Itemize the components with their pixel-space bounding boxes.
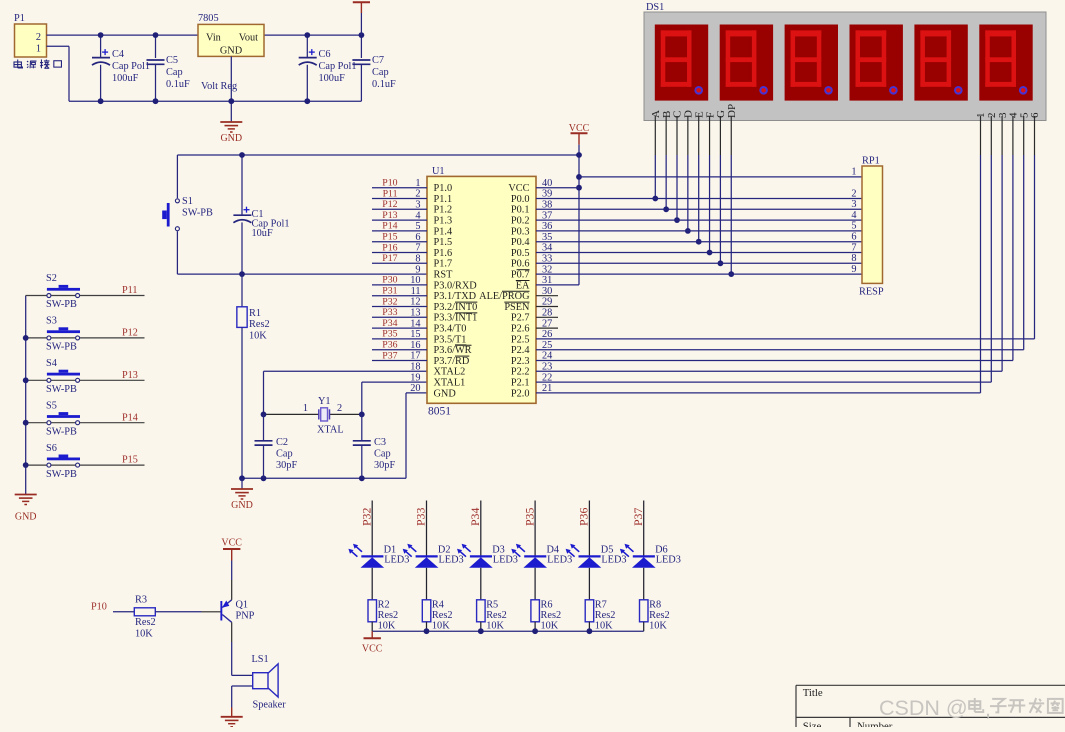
- svg-text:P3.5/T1: P3.5/T1: [434, 334, 467, 345]
- svg-text:P1.6: P1.6: [434, 248, 453, 259]
- overbar marks: [455, 270, 530, 356]
- wire P33 vertical: [426, 501, 428, 557]
- top rail Vout to VCC: [264, 34, 361, 36]
- svg-text:5: 5: [851, 221, 856, 232]
- digit 1 of DS1: [655, 25, 708, 101]
- svg-text:LED3: LED3: [384, 555, 409, 566]
- svg-text:1: 1: [303, 403, 308, 414]
- wire VCC rail to reset circuit: [177, 154, 579, 156]
- svg-text:XTAL1: XTAL1: [434, 378, 466, 389]
- svg-text:Speaker: Speaker: [253, 700, 287, 711]
- svg-text:Cap: Cap: [374, 449, 391, 460]
- svg-text:LED3: LED3: [439, 555, 464, 566]
- power VCC top: [353, 1, 370, 3]
- svg-text:C2: C2: [276, 437, 288, 448]
- svg-text:1: 1: [851, 167, 856, 178]
- switch S2: [26, 295, 145, 297]
- svg-text:RP1: RP1: [862, 156, 880, 167]
- svg-text:P0.6: P0.6: [511, 259, 530, 270]
- svg-text:P2.3: P2.3: [511, 356, 530, 367]
- svg-text:P0.2: P0.2: [511, 216, 530, 227]
- svg-text:LS1: LS1: [252, 654, 269, 665]
- svg-text:P1.3: P1.3: [434, 216, 453, 227]
- svg-text:P3.4/T0: P3.4/T0: [434, 324, 467, 335]
- resistor R7: [588, 568, 590, 600]
- display DS1 body: [644, 12, 1046, 121]
- svg-text:Cap Pol1: Cap Pol1: [112, 61, 150, 72]
- svg-text:P32: P32: [382, 296, 397, 307]
- svg-text:R7: R7: [595, 600, 607, 611]
- svg-text:P35: P35: [522, 508, 536, 526]
- wire XTAL1 pin19: [362, 381, 427, 383]
- power VCC above Q1: [231, 549, 233, 561]
- svg-text:P3.0/RXD: P3.0/RXD: [434, 280, 478, 291]
- svg-text:DP: DP: [726, 104, 738, 118]
- svg-text:C7: C7: [372, 55, 384, 66]
- svg-text:P12: P12: [382, 199, 397, 210]
- switch S3: [26, 337, 145, 339]
- wire collector to speaker: [232, 674, 253, 676]
- svg-text:P16: P16: [382, 242, 397, 253]
- svg-text:8051: 8051: [428, 406, 451, 418]
- svg-text:Title: Title: [803, 687, 823, 699]
- svg-text:10K: 10K: [595, 621, 613, 632]
- svg-text:R1: R1: [249, 308, 261, 319]
- wire R3 to Q1 base: [155, 611, 201, 613]
- svg-text:P2.2: P2.2: [511, 367, 530, 378]
- digit 6 of DS1: [979, 25, 1032, 101]
- ground GND below 7805: [220, 121, 242, 123]
- svg-text:Cap: Cap: [372, 67, 389, 78]
- svg-text:P2.1: P2.1: [511, 378, 530, 389]
- unconnected stubs pins 27-30: [536, 295, 558, 297]
- svg-text:1: 1: [36, 44, 41, 55]
- capacitor C7: [360, 35, 362, 58]
- svg-text:20: 20: [410, 383, 420, 394]
- svg-text:4: 4: [851, 210, 856, 221]
- LED D6: [633, 555, 655, 557]
- svg-text:19: 19: [410, 372, 420, 383]
- op-amp U1 8051 body: [427, 176, 536, 403]
- svg-text:30pF: 30pF: [374, 460, 395, 471]
- svg-text:7805: 7805: [198, 13, 219, 24]
- ground GND below S6: [25, 465, 27, 494]
- svg-text:,: ,: [985, 697, 991, 721]
- svg-text:P10: P10: [382, 178, 397, 189]
- resistor R8: [643, 568, 645, 600]
- svg-text:10K: 10K: [249, 331, 267, 342]
- svg-text:30pF: 30pF: [276, 460, 297, 471]
- svg-text:GND: GND: [434, 388, 457, 399]
- svg-text:S3: S3: [46, 316, 57, 327]
- svg-text:P33: P33: [382, 307, 397, 318]
- wire Q1 emitter to VCC: [231, 580, 233, 600]
- title block: [796, 685, 1065, 727]
- switch S4: [26, 379, 145, 381]
- ground GND below speaker: [221, 716, 243, 718]
- svg-text:P11: P11: [383, 188, 398, 199]
- svg-text:P32: P32: [359, 508, 373, 526]
- svg-text:EA: EA: [516, 280, 530, 291]
- wire P34 vertical: [480, 501, 482, 557]
- svg-text:10K: 10K: [541, 621, 559, 632]
- svg-text:RST: RST: [434, 270, 454, 281]
- svg-text:P15: P15: [382, 232, 397, 243]
- svg-text:DS1: DS1: [646, 2, 664, 13]
- resistor R5: [480, 568, 482, 600]
- switch S1: [176, 155, 178, 198]
- svg-text:P0.3: P0.3: [511, 226, 530, 237]
- svg-text:C6: C6: [319, 49, 331, 60]
- svg-text:P30: P30: [382, 275, 397, 286]
- LED D1: [361, 555, 383, 557]
- svg-text:Res2: Res2: [541, 610, 562, 621]
- capacitor C6: [306, 35, 308, 58]
- LED D5: [579, 555, 601, 557]
- svg-text:P1.5: P1.5: [434, 237, 453, 248]
- svg-text:6: 6: [1029, 112, 1041, 118]
- svg-text:P11: P11: [122, 285, 137, 296]
- speaker LS1: [253, 673, 268, 689]
- svg-text:P3.6/WR: P3.6/WR: [434, 345, 472, 356]
- LED D2: [416, 555, 438, 557]
- svg-text:S4: S4: [46, 358, 57, 369]
- wire LED ground rail: [372, 630, 644, 632]
- svg-text:P36: P36: [382, 340, 397, 351]
- svg-text:P31: P31: [382, 286, 397, 297]
- svg-text:GND: GND: [15, 512, 37, 523]
- wire P35 vertical: [534, 501, 536, 557]
- wire P1 pin1 down to ground rail: [47, 45, 70, 47]
- svg-text:P2.5: P2.5: [511, 334, 530, 345]
- svg-text:SW-PB: SW-PB: [46, 469, 77, 480]
- wire Q1 collector down: [231, 622, 233, 642]
- svg-text:S2: S2: [46, 273, 57, 284]
- svg-text:Y1: Y1: [318, 396, 331, 407]
- svg-text:P3.2/INT0: P3.2/INT0: [434, 302, 478, 313]
- svg-text:SW-PB: SW-PB: [182, 208, 213, 219]
- svg-text:XTAL: XTAL: [317, 425, 344, 436]
- connector P1: [15, 24, 47, 57]
- wire EA pin31: [536, 284, 579, 286]
- svg-text:10K: 10K: [486, 621, 504, 632]
- wire GND pin20: [406, 392, 427, 394]
- svg-text:Number: Number: [857, 721, 893, 728]
- svg-text:P2.6: P2.6: [511, 324, 530, 335]
- svg-text:P13: P13: [122, 370, 138, 381]
- svg-text:R2: R2: [378, 600, 390, 611]
- wire VCC pin40: [536, 187, 579, 189]
- svg-text:7: 7: [851, 242, 856, 253]
- wire RST rail: [177, 273, 427, 275]
- svg-text:P0.1: P0.1: [511, 205, 530, 216]
- svg-text:SW-PB: SW-PB: [46, 342, 77, 353]
- svg-text:Res2: Res2: [649, 610, 670, 621]
- svg-text:Res2: Res2: [249, 319, 270, 330]
- svg-text:100uF: 100uF: [112, 73, 139, 84]
- resistor R1: [241, 274, 243, 307]
- svg-text:CSDN @: CSDN @: [879, 696, 968, 720]
- svg-text:Vout: Vout: [239, 33, 258, 44]
- svg-text:P1.4: P1.4: [434, 226, 453, 237]
- svg-text:P15: P15: [122, 455, 138, 466]
- svg-text:P33: P33: [414, 508, 428, 526]
- svg-text:C3: C3: [374, 437, 386, 448]
- svg-text:3: 3: [851, 199, 856, 210]
- svg-text:PNP: PNP: [236, 611, 255, 622]
- wire speaker return to ground: [232, 685, 253, 687]
- wire P1 pin2 to regulator: [47, 34, 199, 36]
- digit 4 of DS1: [850, 25, 903, 101]
- svg-text:VCC: VCC: [221, 538, 242, 549]
- svg-text:P35: P35: [382, 329, 397, 340]
- capacitor C5: [155, 35, 157, 58]
- svg-text:VCC: VCC: [362, 644, 383, 655]
- ground rail xtal section: [242, 477, 406, 479]
- svg-text:C4: C4: [112, 49, 124, 60]
- svg-text:GND: GND: [220, 46, 243, 57]
- resistor-pack RP1: [862, 166, 883, 283]
- display pin stubs: [654, 116, 656, 155]
- svg-text:LED3: LED3: [493, 555, 518, 566]
- label 电源接口: [14, 60, 22, 68]
- svg-text:XTAL2: XTAL2: [434, 367, 466, 378]
- LED D4: [524, 555, 546, 557]
- svg-text:RESP: RESP: [859, 287, 884, 298]
- svg-text:2: 2: [851, 188, 856, 199]
- svg-text:2: 2: [337, 403, 342, 414]
- switch S5: [26, 422, 145, 424]
- svg-text:2: 2: [36, 32, 41, 43]
- svg-text:LED3: LED3: [656, 555, 681, 566]
- svg-text:LED3: LED3: [601, 555, 626, 566]
- ground GND below R1: [241, 478, 243, 489]
- resistor R6: [534, 568, 536, 600]
- wire P10 to R3: [113, 611, 134, 613]
- svg-text:LED3: LED3: [547, 555, 572, 566]
- svg-text:P2.7: P2.7: [511, 313, 530, 324]
- svg-text:100uF: 100uF: [319, 73, 346, 84]
- wire 7805 GND down: [230, 56, 232, 122]
- svg-text:P3.3/INT1: P3.3/INT1: [434, 313, 478, 324]
- crystal Y1: [264, 413, 319, 415]
- capacitor C4: [100, 35, 102, 58]
- power VCC below LED rail: [371, 631, 373, 638]
- svg-text:Q1: Q1: [236, 600, 249, 611]
- svg-text:10uF: 10uF: [252, 228, 273, 239]
- svg-text:P14: P14: [382, 221, 397, 232]
- svg-text:10K: 10K: [432, 621, 450, 632]
- svg-text:SW-PB: SW-PB: [46, 384, 77, 395]
- svg-text:P34: P34: [468, 508, 482, 526]
- svg-text:P34: P34: [382, 318, 397, 329]
- svg-text:P2.4: P2.4: [511, 345, 530, 356]
- svg-text:P0.4: P0.4: [511, 237, 530, 248]
- svg-text:P0.5: P0.5: [511, 248, 530, 259]
- capacitor C2: [263, 414, 265, 440]
- svg-text:P36: P36: [577, 508, 591, 526]
- svg-text:Cap: Cap: [276, 449, 293, 460]
- svg-text:Res2: Res2: [135, 617, 156, 628]
- svg-text:Cap: Cap: [166, 67, 183, 78]
- svg-text:P1: P1: [14, 13, 25, 24]
- svg-text:P14: P14: [122, 412, 138, 423]
- svg-text:P13: P13: [382, 210, 397, 221]
- svg-text:R5: R5: [486, 600, 498, 611]
- svg-text:P1.7: P1.7: [434, 259, 453, 270]
- svg-text:U1: U1: [432, 166, 445, 177]
- svg-text:10K: 10K: [378, 621, 396, 632]
- svg-text:SW-PB: SW-PB: [46, 426, 77, 437]
- capacitor C3: [361, 414, 363, 440]
- wire P32 vertical: [371, 501, 373, 557]
- svg-text:R3: R3: [135, 595, 147, 606]
- resistor R3: [134, 608, 155, 616]
- wires P0.0-P0.7 U1 to RP1: [536, 198, 862, 200]
- wire P37 vertical: [643, 501, 645, 557]
- svg-text:GND: GND: [231, 500, 253, 511]
- svg-text:R8: R8: [649, 600, 661, 611]
- wire XTAL2 pin18: [264, 370, 428, 372]
- svg-text:10K: 10K: [135, 629, 153, 640]
- svg-text:P0.0: P0.0: [511, 194, 530, 205]
- svg-text:Size: Size: [803, 721, 822, 728]
- svg-text:9: 9: [415, 264, 420, 275]
- svg-text:P1.2: P1.2: [434, 205, 453, 216]
- ground rail bottom of power section: [69, 100, 361, 102]
- svg-text:P0.7: P0.7: [511, 270, 530, 281]
- digit 2 of DS1: [720, 25, 773, 101]
- svg-text:Vin: Vin: [206, 33, 221, 44]
- svg-text:Cap Pol1: Cap Pol1: [319, 61, 357, 72]
- svg-text:R6: R6: [541, 600, 553, 611]
- svg-text:Res2: Res2: [486, 610, 507, 621]
- regulator 7805 U?: [198, 24, 264, 56]
- wire switch ground bus: [25, 296, 27, 466]
- wire VCC net vertical: [578, 145, 580, 285]
- digit 3 of DS1: [785, 25, 838, 101]
- svg-text:0.1uF: 0.1uF: [166, 79, 190, 90]
- svg-text:VCC: VCC: [508, 183, 529, 194]
- svg-text:P12: P12: [122, 328, 138, 339]
- capacitor C1: [241, 155, 243, 215]
- svg-text:P3.1/TXD: P3.1/TXD: [434, 291, 477, 302]
- LED D3: [470, 555, 492, 557]
- svg-text:P10: P10: [91, 602, 107, 613]
- svg-text:P2.0: P2.0: [511, 388, 530, 399]
- svg-text:C5: C5: [166, 55, 178, 66]
- wire P36 vertical: [588, 501, 590, 557]
- svg-text:6: 6: [851, 232, 856, 243]
- svg-text:S5: S5: [46, 400, 57, 411]
- svg-text:SW-PB: SW-PB: [46, 299, 77, 310]
- svg-text:S1: S1: [182, 196, 193, 207]
- svg-text:P3.7/RD: P3.7/RD: [434, 356, 470, 367]
- svg-text:P37: P37: [382, 350, 397, 361]
- wires display commons to P2 pins: [980, 155, 982, 393]
- digit 5 of DS1: [914, 25, 967, 101]
- transistor Q1: [220, 601, 222, 621]
- svg-text:8: 8: [851, 253, 856, 264]
- svg-text:S6: S6: [46, 443, 57, 454]
- svg-text:R4: R4: [432, 600, 444, 611]
- svg-text:9: 9: [851, 264, 856, 275]
- svg-text:PSEN: PSEN: [504, 302, 530, 313]
- svg-text:10K: 10K: [649, 621, 667, 632]
- svg-text:P37: P37: [631, 508, 645, 526]
- switch S6: [26, 464, 145, 466]
- svg-text:P1.0: P1.0: [434, 183, 453, 194]
- svg-text:0.1uF: 0.1uF: [372, 79, 396, 90]
- svg-text:GND: GND: [220, 133, 242, 144]
- resistor R2: [371, 568, 373, 600]
- wire RP1 pin1 to VCC: [579, 176, 862, 178]
- wires display segments to P0 bus: [654, 155, 656, 199]
- svg-text:Res2: Res2: [595, 610, 616, 621]
- svg-text:Res2: Res2: [432, 610, 453, 621]
- svg-text:P17: P17: [382, 253, 397, 264]
- svg-text:P1.1: P1.1: [434, 194, 453, 205]
- svg-text:Res2: Res2: [378, 610, 399, 621]
- svg-text:18: 18: [410, 362, 420, 373]
- svg-text:ALE/PROG: ALE/PROG: [479, 291, 530, 302]
- resistor R4: [426, 568, 428, 600]
